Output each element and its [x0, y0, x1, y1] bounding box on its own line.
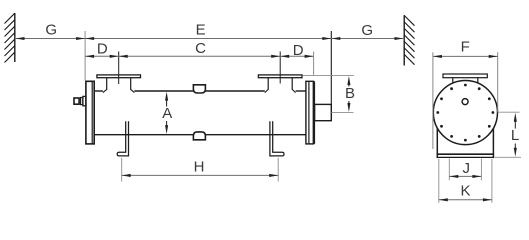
svg-text:H: H	[194, 158, 205, 175]
svg-text:B: B	[345, 85, 355, 102]
svg-text:A: A	[162, 105, 172, 122]
svg-text:J: J	[463, 160, 471, 177]
svg-text:F: F	[461, 38, 470, 55]
svg-text:C: C	[195, 40, 206, 57]
svg-text:D: D	[97, 40, 108, 57]
svg-text:G: G	[45, 22, 57, 39]
svg-text:K: K	[460, 183, 470, 200]
svg-text:D: D	[293, 42, 304, 59]
svg-text:L: L	[511, 127, 519, 144]
svg-text:G: G	[361, 22, 373, 39]
svg-text:E: E	[196, 22, 206, 39]
